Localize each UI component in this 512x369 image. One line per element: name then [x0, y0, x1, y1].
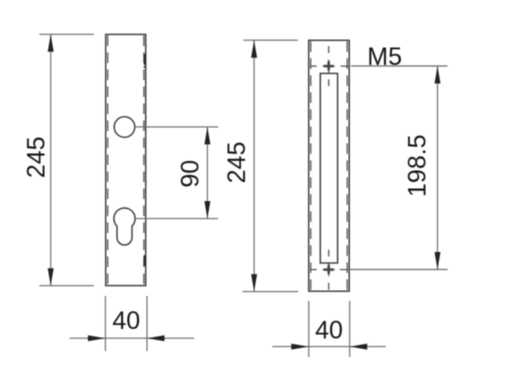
- svg-text:245: 245: [223, 142, 251, 184]
- svg-text:40: 40: [112, 307, 140, 335]
- svg-text:40: 40: [315, 317, 343, 345]
- svg-text:245: 245: [22, 136, 50, 178]
- svg-text:90: 90: [177, 160, 205, 188]
- svg-text:M5: M5: [367, 43, 402, 71]
- svg-text:198.5: 198.5: [403, 134, 431, 197]
